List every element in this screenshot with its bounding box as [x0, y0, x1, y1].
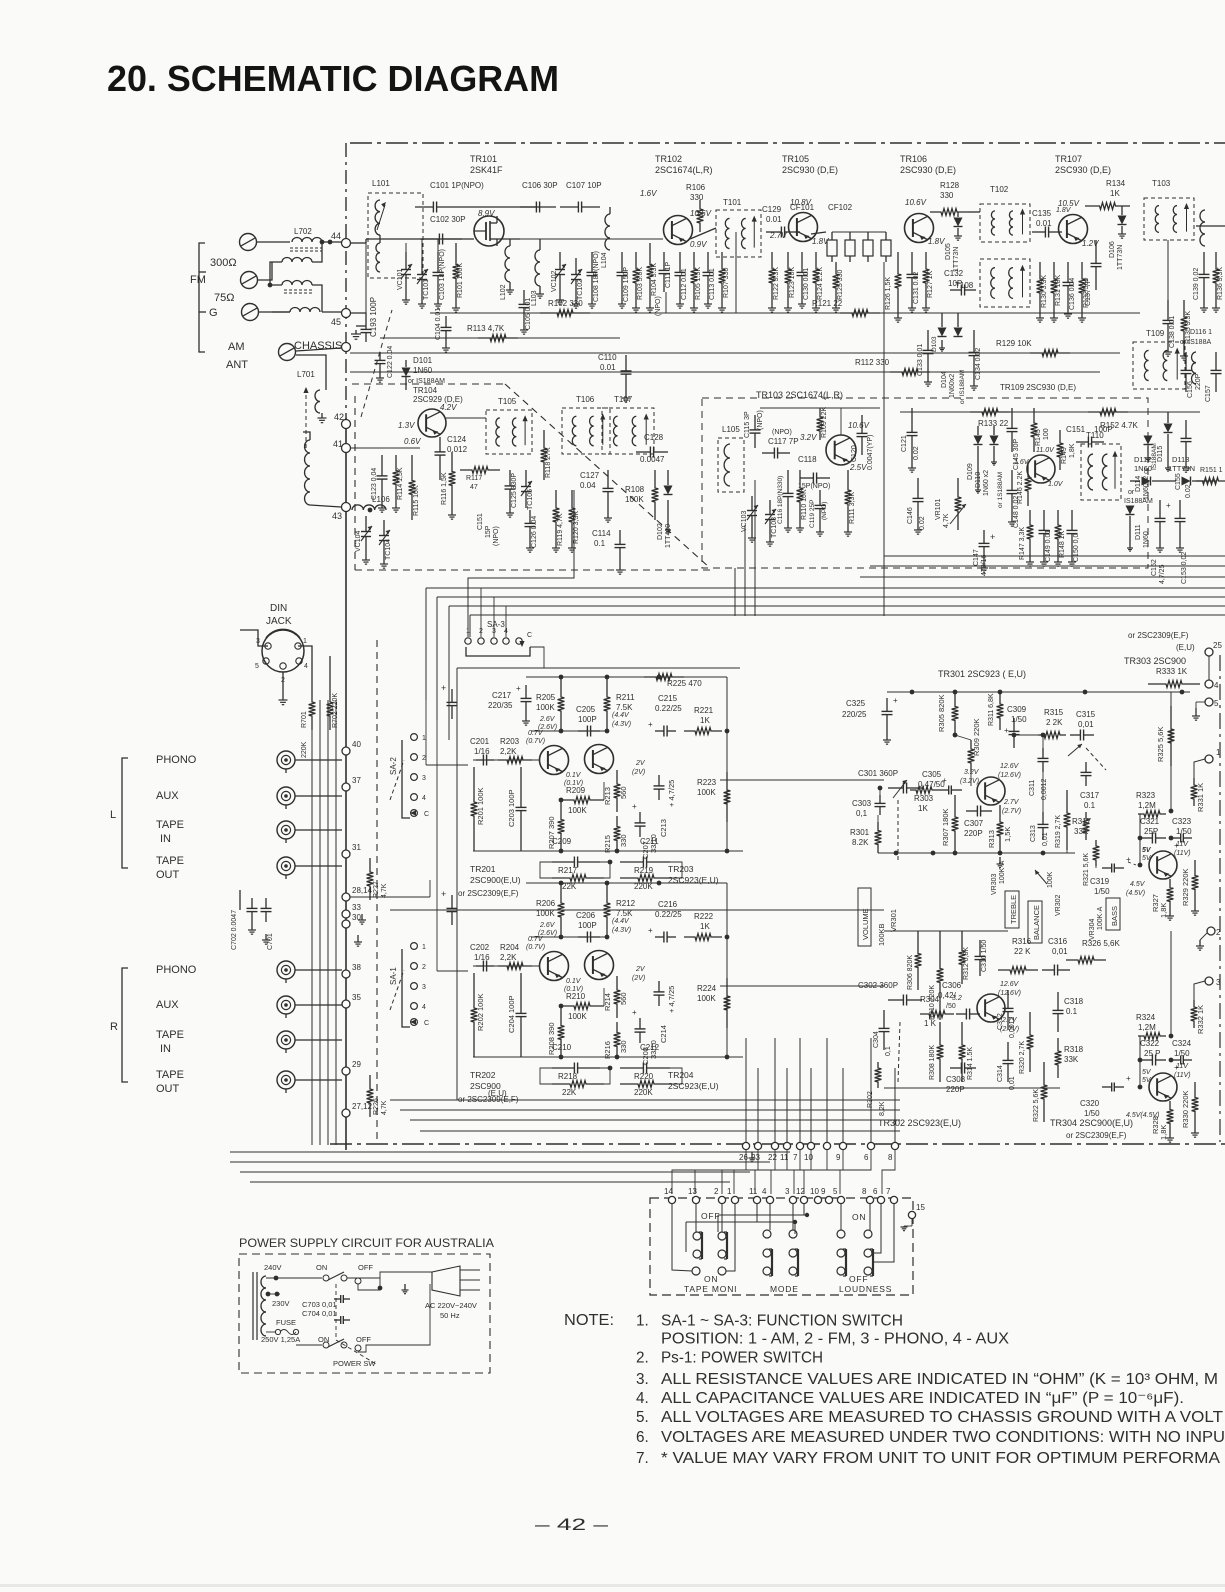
svg-text:(2.7V): (2.7V)	[1000, 1026, 1019, 1033]
svg-text:C204 100P: C204 100P	[507, 995, 516, 1033]
wire preamp to tone 1	[720, 779, 884, 781]
wire PHONO jack to bus	[295, 969, 342, 971]
capacitor C217 C217	[525, 685, 527, 698]
feedback network wires	[540, 1068, 552, 1084]
capacitor C129 0.01	[766, 231, 781, 233]
svg-text:C209: C209	[552, 837, 572, 846]
svg-text:VR304: VR304	[1089, 918, 1096, 940]
svg-text:L105: L105	[722, 425, 740, 434]
svg-text:C134 0.02: C134 0.02	[975, 348, 982, 380]
svg-text:R210: R210	[566, 992, 586, 1001]
svg-text:12: 12	[796, 1187, 805, 1196]
svg-text:4.5V: 4.5V	[1130, 881, 1146, 888]
svg-text:1.6V: 1.6V	[1014, 459, 1030, 466]
svg-text:TR204: TR204	[668, 1070, 694, 1080]
horizontal wires in amp lower area	[390, 1099, 900, 1101]
svg-text:1/50: 1/50	[1176, 827, 1192, 836]
svg-text:9: 9	[821, 1187, 826, 1196]
svg-text:1.8V: 1.8V	[1056, 207, 1072, 214]
svg-text:2.5V: 2.5V	[849, 463, 867, 472]
svg-text:10.6V: 10.6V	[690, 209, 712, 218]
resistor R225 inline	[644, 674, 684, 681]
RCA jack TAPE IN L channel	[277, 821, 295, 839]
capacitor C207 33/10	[639, 812, 641, 823]
svg-text:C155: C155	[1175, 473, 1182, 490]
wire TR102 to T101	[690, 228, 716, 239]
svg-text:or IS188AM: or IS188AM	[408, 378, 445, 385]
svg-text:C102 30P: C102 30P	[430, 215, 466, 224]
svg-text:5.: 5.	[636, 1409, 649, 1426]
emitter rail	[473, 1056, 743, 1058]
rail to amp input wires	[425, 588, 427, 765]
resistor R314 1.5K	[959, 1022, 966, 1082]
svg-text:R136 3,3K: R136 3,3K	[1217, 267, 1224, 300]
svg-text:3.: 3.	[636, 1371, 649, 1388]
svg-text:C125 330P: C125 330P	[511, 473, 518, 508]
resistor R211 7.5K	[604, 677, 611, 731]
capacitor C318 0.1	[1057, 992, 1059, 1010]
node 43 open circle	[342, 503, 351, 512]
node 45 open circle	[342, 309, 351, 318]
svg-text:R313: R313	[987, 830, 996, 848]
svg-text:2.7V: 2.7V	[769, 231, 787, 240]
svg-text:3.2: 3.2	[952, 995, 962, 1002]
capacitor C216	[655, 936, 664, 938]
resistor R114 1.5K	[393, 455, 400, 500]
svg-text:L104: L104	[601, 252, 608, 268]
svg-text:C704 0,01: C704 0,01	[302, 1309, 337, 1318]
RCA jack AUX L channel	[277, 787, 295, 805]
svg-text:D104: D104	[941, 371, 948, 388]
capacitor C106 30P	[520, 206, 536, 208]
AM bar antenna coil L701 upper	[315, 390, 320, 413]
resistor R307 180K	[952, 795, 959, 853]
svg-text:R304: R304	[920, 995, 940, 1004]
transistor TR204	[585, 951, 614, 980]
transistor TR202	[540, 952, 569, 981]
svg-text:R119 4,7K: R119 4,7K	[557, 513, 564, 546]
svg-text:15P(NPO): 15P(NPO)	[798, 483, 830, 490]
capacitor C111 1P	[663, 252, 665, 270]
svg-text:C214: C214	[659, 1025, 668, 1043]
resistor R111 3.3K	[845, 470, 852, 524]
switch wiring 8	[869, 1204, 871, 1230]
svg-text:C108 18P(NPO): C108 18P(NPO)	[593, 251, 600, 302]
svg-text:4.: 4.	[636, 1390, 649, 1407]
feedback network wires	[540, 862, 552, 878]
svg-text:T103: T103	[1152, 179, 1171, 188]
svg-text:44: 44	[331, 231, 341, 241]
svg-text:C156: C156	[1187, 381, 1194, 398]
svg-text:R211: R211	[616, 693, 635, 702]
svg-text:7: 7	[886, 1187, 891, 1196]
wires from SA3 to amp	[530, 647, 544, 668]
mode single circles	[763, 1230, 771, 1238]
resistor R209 100K feedback	[560, 797, 604, 804]
resistor R308 180K	[937, 1022, 944, 1082]
svg-text:8,2K: 8,2K	[879, 1101, 886, 1116]
svg-text:2.: 2.	[636, 1349, 649, 1366]
svg-text:C702 0.0047: C702 0.0047	[231, 910, 238, 950]
resistor R130 3.3K	[1037, 262, 1044, 310]
svg-text:1.8V: 1.8V	[928, 237, 945, 246]
rail staircase verticals	[425, 588, 427, 700]
svg-text:2.6V: 2.6V	[539, 922, 556, 929]
svg-text:0.7V: 0.7V	[528, 730, 544, 737]
svg-text:R102 330: R102 330	[548, 299, 583, 308]
L105 dashed box with coil	[718, 438, 744, 492]
capacitor C213 4.7/25	[658, 775, 660, 786]
resistor R215 330	[614, 816, 621, 851]
svg-text:C131 0.02: C131 0.02	[913, 272, 920, 304]
svg-text:1N60: 1N60	[413, 366, 433, 375]
svg-text:C313: C313	[1030, 825, 1037, 842]
svg-text:IN: IN	[160, 833, 171, 845]
loudness contact A	[837, 1249, 845, 1257]
ground at terminal 30	[357, 935, 359, 942]
svg-text:R: R	[110, 1021, 118, 1033]
svg-text:D116 1: D116 1	[1190, 329, 1212, 336]
wire R112 row	[350, 371, 1100, 373]
svg-text:D114: D114	[1135, 476, 1142, 492]
wire AM ANT to chassis node	[296, 348, 341, 351]
svg-text:15P: 15P	[485, 525, 492, 538]
svg-text:ALL CAPACITANCE VALUES ARE IND: ALL CAPACITANCE VALUES ARE INDICATED IN …	[661, 1390, 1184, 1407]
resistor R135 3.3K	[1181, 300, 1188, 348]
svg-text:C115 3P: C115 3P	[744, 411, 751, 438]
svg-text:2SC930 (D,E): 2SC930 (D,E)	[782, 165, 838, 175]
tone dashed gang diagonal lower	[898, 1022, 900, 1082]
svg-text:11V: 11V	[1176, 841, 1189, 848]
svg-text:C103 18P(NPO): C103 18P(NPO)	[439, 249, 446, 300]
resistor R218 22K	[552, 1081, 604, 1088]
resistor R113 4.7K inline	[478, 335, 518, 342]
resistor R220 220K	[620, 1081, 672, 1088]
capacitor C212 0.01	[620, 1067, 643, 1069]
capacitor C201 input	[476, 759, 483, 761]
AM ANT screw terminal	[279, 344, 296, 361]
svg-text:TR101: TR101	[470, 154, 497, 164]
svg-text:(4.4V: (4.4V	[612, 918, 630, 925]
svg-text:9: 9	[836, 1153, 841, 1162]
transformer T101	[716, 210, 761, 257]
bus terminal node 38	[342, 970, 350, 978]
svg-text:240V: 240V	[264, 1263, 282, 1272]
svg-text:C: C	[424, 1020, 429, 1027]
diodes D109 D110	[974, 436, 983, 445]
resistor R127 1K	[923, 252, 930, 300]
svg-text:D113: D113	[1172, 455, 1189, 464]
svg-text:0.0047(YP): 0.0047(YP)	[867, 435, 874, 470]
svg-text:D115: D115	[1157, 446, 1164, 462]
wire terminal to balun	[256, 241, 290, 243]
svg-text:2V: 2V	[635, 966, 646, 973]
mains plug symbol	[432, 1266, 460, 1296]
svg-text:R325 5,6K: R325 5,6K	[1156, 727, 1165, 762]
svg-text:4.2V: 4.2V	[440, 403, 457, 412]
lower power switch	[296, 1344, 322, 1346]
capacitor C130 0.01	[801, 252, 803, 272]
resistor R124 2.2K	[813, 252, 820, 300]
svg-text:10.6V: 10.6V	[905, 198, 927, 207]
svg-text:6: 6	[873, 1187, 878, 1196]
power rail bundle	[884, 555, 1225, 557]
capacitor C104 0.01	[445, 316, 447, 327]
capacitor C113 0.01	[707, 252, 709, 272]
resistor R112 330 inline	[890, 369, 930, 376]
svg-text:TREBLE: TREBLE	[1009, 895, 1018, 924]
transistor TR201	[540, 746, 569, 775]
svg-text:R106: R106	[686, 183, 706, 192]
wire T103 down	[1167, 240, 1169, 300]
right edge terminals	[1205, 648, 1213, 656]
svg-text:C118: C118	[798, 455, 817, 464]
diode D111 1N60	[1126, 506, 1135, 515]
svg-text:0.012: 0.012	[447, 445, 468, 454]
svg-text:2SK41F: 2SK41F	[470, 165, 503, 175]
svg-text:100K: 100K	[625, 495, 644, 504]
svg-text:14: 14	[664, 1187, 673, 1196]
svg-text:0.04: 0.04	[580, 481, 596, 490]
svg-text:0,01: 0,01	[1052, 947, 1068, 956]
wire node41 row	[350, 447, 432, 449]
svg-text:R226: R226	[373, 1098, 380, 1115]
svg-text:C212: C212	[640, 1043, 660, 1052]
capacitor C305 0.47/50	[938, 789, 949, 791]
svg-text:4,7K: 4,7K	[943, 513, 950, 528]
svg-text:TAPE: TAPE	[156, 855, 184, 867]
transformer taps	[266, 1277, 296, 1279]
svg-text:+: +	[516, 684, 521, 693]
capacitor C153 0.02	[1179, 500, 1181, 518]
svg-text:4: 4	[422, 1004, 426, 1011]
svg-text:5V: 5V	[1142, 1069, 1152, 1076]
svg-text:C323: C323	[1172, 817, 1192, 826]
svg-text:L101: L101	[372, 179, 390, 188]
tape moni contact A	[693, 1232, 701, 1240]
svg-text:AM: AM	[228, 341, 245, 353]
svg-text:1: 1	[727, 1187, 732, 1196]
resistor R208 390	[558, 1008, 565, 1057]
capacitor C133 0.01	[927, 330, 929, 350]
wire from node 28,14 to SA-2 area	[350, 896, 430, 898]
svg-text:38: 38	[352, 963, 361, 972]
svg-text:2: 2	[422, 755, 426, 762]
svg-text:T109: T109	[1146, 329, 1165, 338]
resistor R302 8.2K	[875, 1062, 882, 1088]
resistor R315 inline	[1038, 732, 1066, 739]
svg-text:C119 25P: C119 25P	[809, 500, 816, 528]
capacitor C211 0.01	[620, 861, 643, 863]
node 44 open circle	[342, 239, 351, 248]
svg-text:+: +	[632, 1008, 637, 1017]
svg-text:C157: C157	[1205, 385, 1212, 402]
svg-text:JACK: JACK	[266, 616, 292, 627]
wire TR103 collector up	[840, 408, 842, 435]
resistor R148 1K	[1055, 510, 1062, 554]
svg-text:R301: R301	[850, 828, 870, 837]
svg-text:C215: C215	[658, 694, 678, 703]
fm front-end dashed diagonal	[505, 384, 710, 568]
switch wiring 2	[721, 1204, 723, 1232]
transistor TR302	[977, 994, 1005, 1022]
capacitor C137 7P	[1095, 240, 1097, 263]
svg-text:100K: 100K	[536, 703, 555, 712]
RCA jack TAPE OUT L channel	[277, 857, 295, 875]
transformer T701 core	[252, 1272, 254, 1340]
svg-text:35: 35	[352, 993, 361, 1002]
svg-text:R224: R224	[697, 984, 717, 993]
resistor R145 100	[1031, 408, 1038, 452]
svg-text:1N60: 1N60	[1134, 464, 1152, 473]
resistor R214 560	[614, 976, 621, 1018]
svg-text:R217: R217	[558, 866, 578, 875]
preamp right vertical	[726, 883, 728, 1057]
svg-text:R203: R203	[500, 737, 520, 746]
svg-text:C150 0,0: C150 0,0	[1073, 533, 1080, 562]
svg-text:R201 100K: R201 100K	[476, 787, 485, 825]
trimmer TC103	[769, 500, 771, 515]
svg-text:C205: C205	[576, 705, 596, 714]
svg-text:or 2SC2309(E,F): or 2SC2309(E,F)	[1066, 1131, 1127, 1140]
svg-text:0.1: 0.1	[594, 539, 606, 548]
coil L104	[605, 214, 610, 250]
svg-text:C211: C211	[640, 837, 659, 846]
svg-text:1K: 1K	[918, 804, 928, 813]
svg-text:1,5K: 1,5K	[1003, 827, 1012, 842]
wire lower switch right	[358, 1284, 430, 1352]
svg-text:4: 4	[1214, 681, 1219, 690]
svg-text:100P: 100P	[578, 921, 597, 930]
resistor R117 47	[460, 467, 500, 474]
svg-text:R209: R209	[566, 786, 586, 795]
svg-text:C304: C304	[873, 1031, 880, 1048]
svg-text:R109 22K: R109 22K	[821, 407, 828, 438]
svg-text:1/16: 1/16	[474, 953, 490, 962]
svg-text:1: 1	[422, 735, 426, 742]
capacitor C135 0.01	[1032, 231, 1045, 233]
preamp supply cap on bus	[451, 689, 453, 702]
svg-text:TC104: TC104	[385, 539, 392, 560]
capacitor C119 25P	[819, 490, 821, 505]
svg-text:T101: T101	[723, 198, 742, 207]
svg-text:AUX: AUX	[156, 790, 179, 802]
svg-text:33K: 33K	[1064, 1055, 1079, 1064]
capacitor C193 100P	[365, 320, 367, 329]
switch wiring 6	[873, 1204, 881, 1253]
transistor TR304 circle	[1149, 1073, 1177, 1101]
svg-text:220/35: 220/35	[488, 701, 513, 710]
transformer T110	[1081, 444, 1121, 500]
svg-text:TR107: TR107	[1055, 154, 1082, 164]
ground under L701 upper	[321, 413, 323, 418]
capacitor C105 0.01	[523, 290, 525, 304]
wire TAPE IN jack to bus	[295, 829, 342, 831]
resistor R306 820K	[915, 931, 922, 990]
svg-text:R309 220K: R309 220K	[972, 718, 981, 756]
svg-text:0.02: 0.02	[1185, 484, 1192, 498]
svg-text:R151 1: R151 1	[1200, 467, 1223, 474]
capacitor C147 470/16 electrolytic	[983, 530, 985, 543]
main FM signal wire	[350, 242, 366, 244]
svg-text:C152: C152	[1151, 559, 1158, 576]
svg-text:3.2V: 3.2V	[964, 769, 980, 776]
capacitor C150 0.01	[1071, 510, 1073, 530]
svg-text:220K: 220K	[301, 741, 308, 758]
node 41 open circle	[342, 444, 351, 453]
svg-text:1.0V: 1.0V	[1048, 481, 1064, 488]
svg-text:R110 10K: R110 10K	[801, 489, 808, 520]
wire R129 row	[350, 352, 1120, 354]
svg-text:+: +	[441, 889, 446, 899]
svg-text:R120 3,3K: R120 3,3K	[573, 511, 580, 544]
svg-text:R317: R317	[1072, 817, 1092, 826]
svg-text:5V: 5V	[1142, 847, 1152, 854]
boxed label VOLUME	[858, 888, 871, 946]
transformer T105	[486, 410, 532, 454]
svg-text:330: 330	[619, 834, 628, 847]
svg-text:R215: R215	[603, 835, 612, 853]
bus terminal node 27,12	[342, 1109, 350, 1117]
svg-text:T110: T110	[1086, 431, 1104, 440]
svg-text:TC105: TC105	[527, 489, 534, 510]
resistor R212 7.5K	[604, 883, 611, 937]
switch wiring 5	[840, 1204, 842, 1230]
svg-text:R220: R220	[634, 1072, 654, 1081]
L101 coils	[375, 200, 380, 235]
svg-text:1.: 1.	[636, 1313, 649, 1330]
svg-text:0.22/25: 0.22/25	[655, 704, 682, 713]
svg-text:4,7K: 4,7K	[381, 1100, 388, 1115]
svg-text:SA-2: SA-2	[389, 757, 398, 775]
capacitor C152 4.7/25	[1159, 500, 1161, 518]
tuner block chain-dash top boundary	[350, 142, 1225, 144]
svg-text:R127 1K: R127 1K	[927, 270, 934, 298]
DIN jack wires	[282, 672, 284, 690]
svg-text:R312 6,8K: R312 6,8K	[963, 947, 970, 980]
FM 300 ohm screw terminal	[240, 234, 257, 251]
wire jogs upper terminals to switch row	[672, 1150, 746, 1194]
svg-text:TR303 2SC900: TR303 2SC900	[1124, 656, 1186, 666]
svg-text:or 2SC2309(E,F): or 2SC2309(E,F)	[1128, 631, 1189, 640]
svg-text:R204: R204	[500, 943, 520, 952]
resistor R110 10K	[797, 470, 804, 520]
svg-text:0.1V: 0.1V	[566, 772, 582, 779]
RCA jack TAPE IN R channel	[277, 1031, 295, 1049]
svg-text:100P: 100P	[578, 715, 597, 724]
chassis node open circle	[342, 343, 351, 352]
svg-text:10.5V: 10.5V	[1058, 199, 1080, 208]
capacitor C123 0.04	[381, 455, 383, 476]
svg-text:MODE: MODE	[770, 1284, 799, 1294]
preamp mid row wire	[531, 730, 607, 732]
svg-text:1,8K: 1,8K	[1159, 903, 1168, 918]
capacitor C134 0.02	[973, 330, 975, 352]
svg-text:33: 33	[352, 903, 361, 912]
svg-text:R219: R219	[634, 866, 654, 875]
capacitor C136 0.04	[1067, 262, 1069, 282]
trimmer TC104	[383, 520, 385, 536]
svg-text:2,2K: 2,2K	[500, 747, 517, 756]
svg-text:ALL RESISTANCE VALUES ARE INDI: ALL RESISTANCE VALUES ARE INDICATED IN “…	[661, 1371, 1218, 1388]
capacitor C215	[655, 730, 664, 732]
svg-text:C151: C151	[477, 513, 484, 530]
boxed label BASS	[1106, 898, 1120, 930]
wire TR105 to filters	[811, 232, 826, 234]
svg-text:C130 0.01: C130 0.01	[803, 268, 810, 300]
wire TAPE OUT jack to bus	[295, 865, 342, 867]
svg-text:Ps-1: POWER SWITCH: Ps-1: POWER SWITCH	[661, 1349, 823, 1366]
